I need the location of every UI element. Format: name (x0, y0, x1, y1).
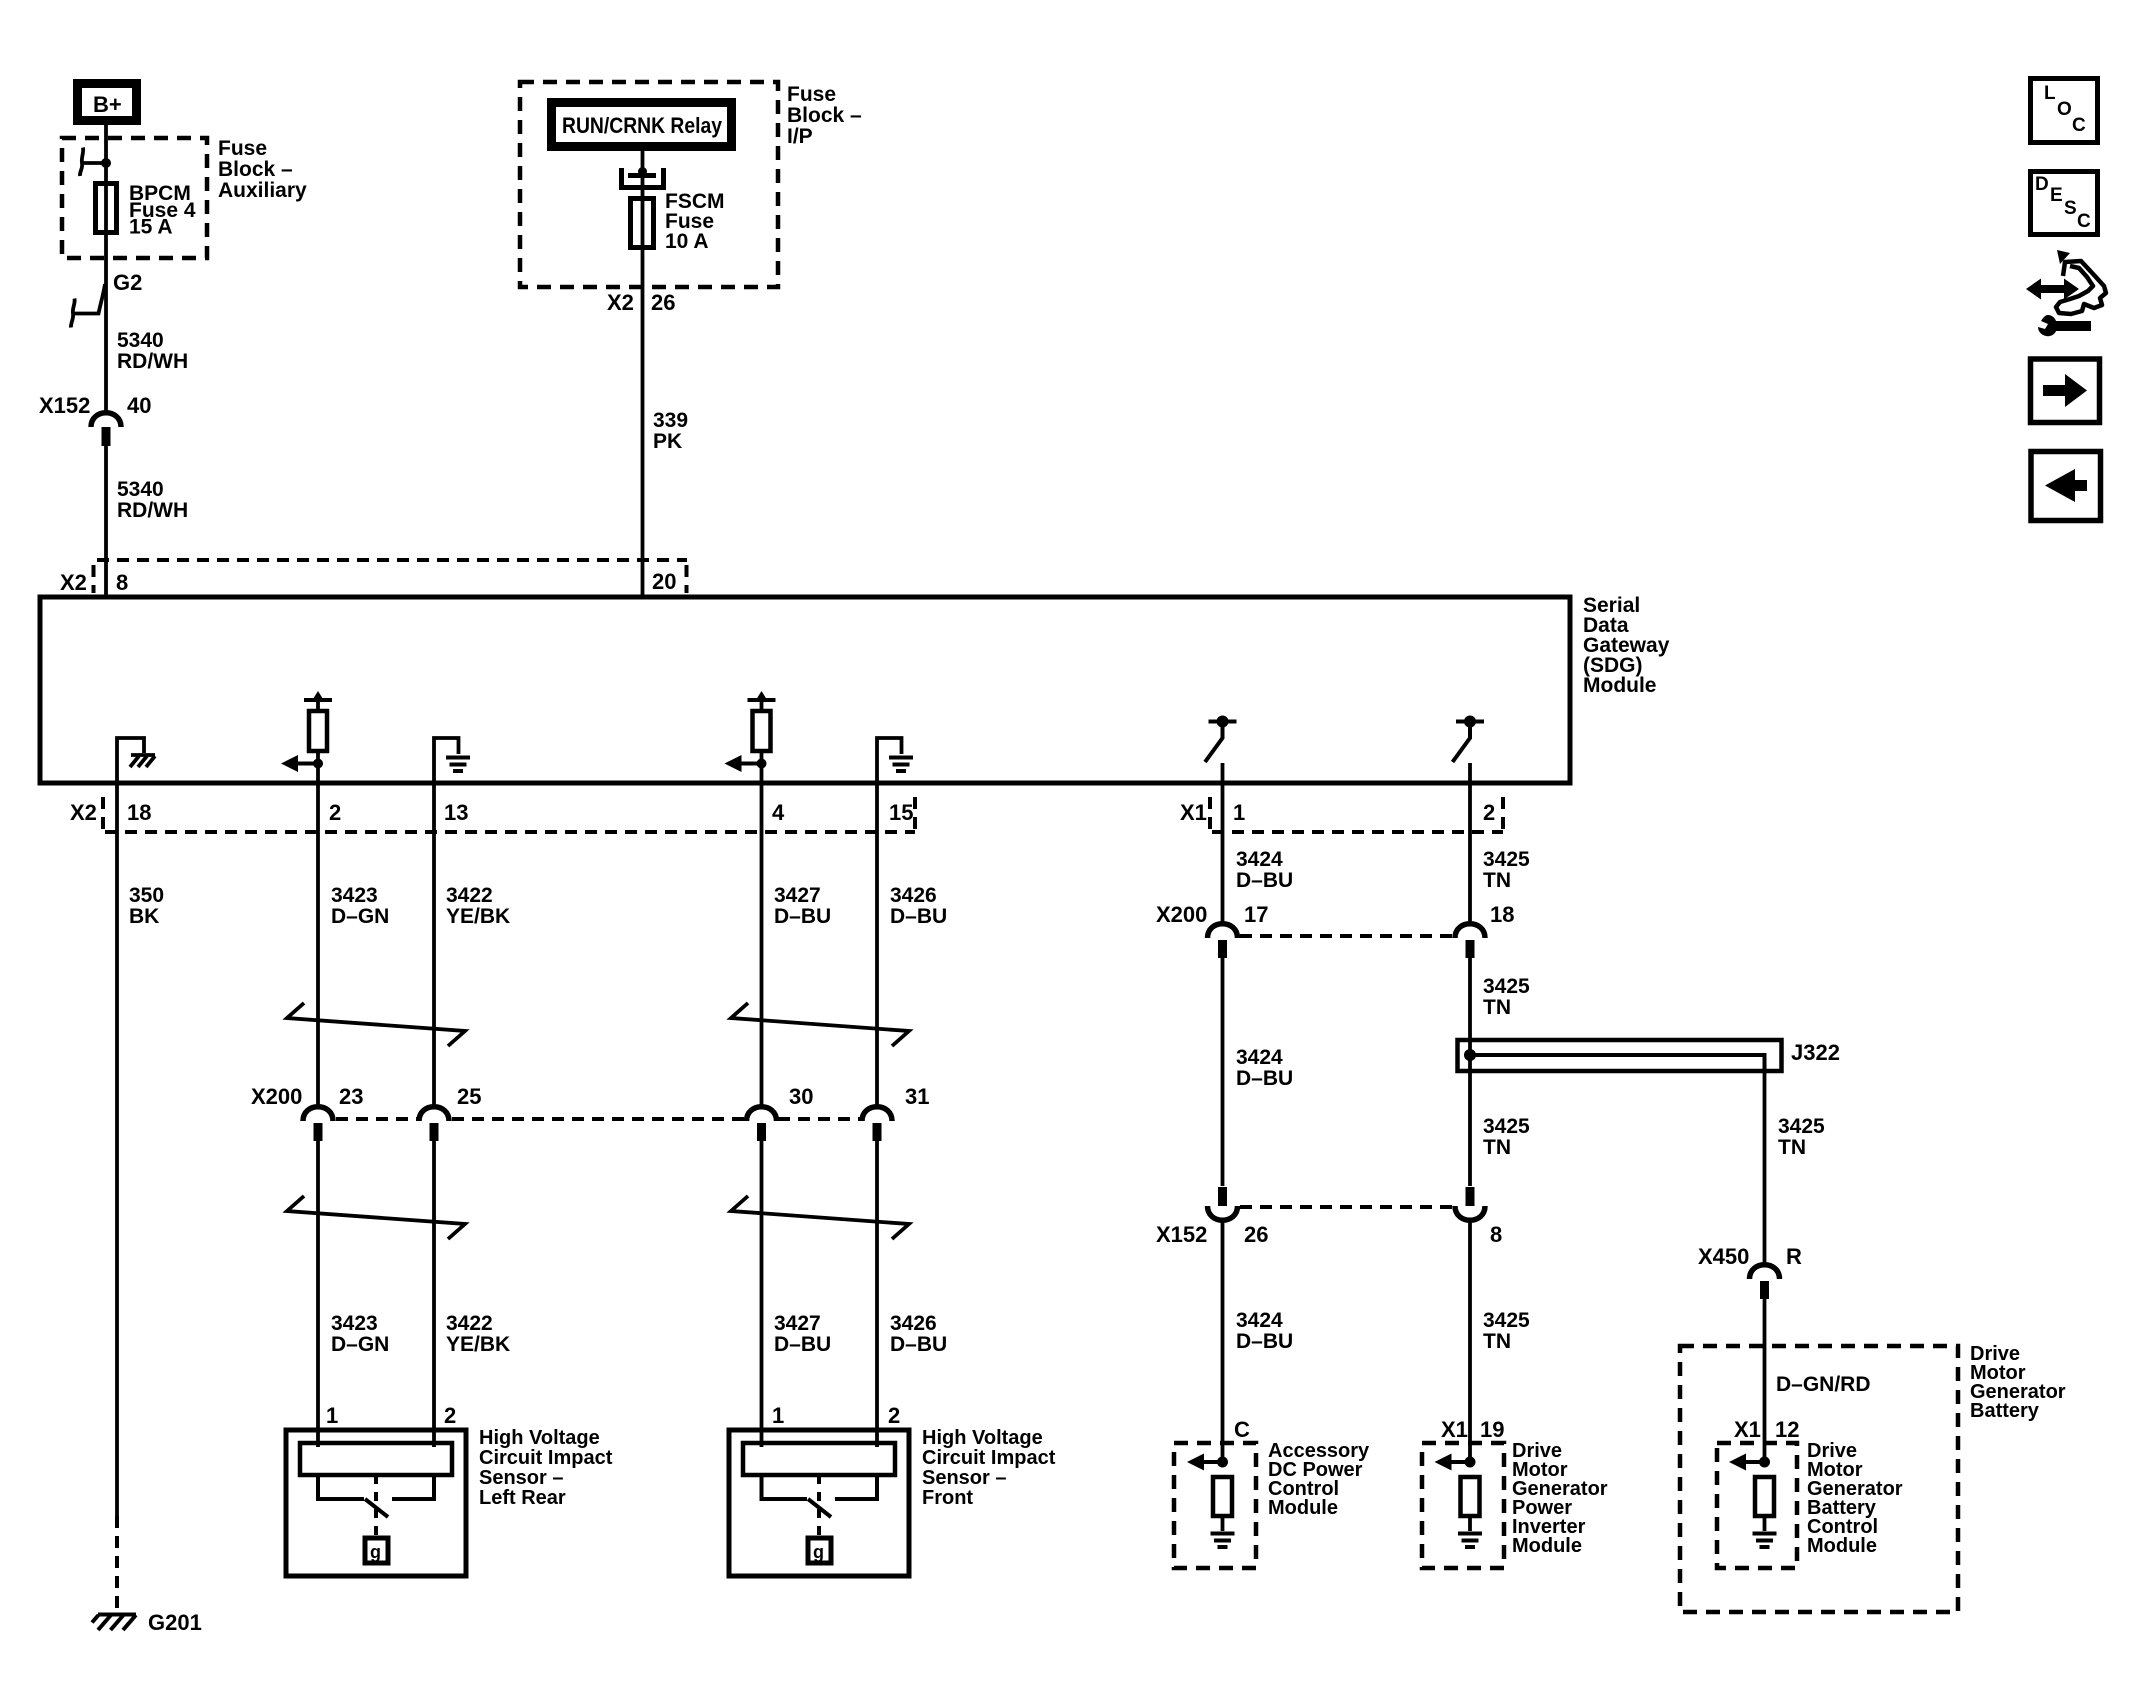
svg-text:1: 1 (326, 1403, 338, 1428)
svg-text:G2: G2 (113, 270, 142, 295)
svg-text:R: R (1786, 1244, 1802, 1269)
svg-text:19: 19 (1480, 1417, 1504, 1442)
svg-text:TN: TN (1778, 1136, 1806, 1159)
svg-text:2: 2 (888, 1403, 900, 1428)
svg-text:D–GN: D–GN (331, 1333, 389, 1356)
svg-text:Fuse: Fuse (787, 83, 836, 106)
svg-text:S: S (2064, 198, 2077, 219)
svg-text:3424: 3424 (1236, 1309, 1283, 1332)
svg-text:3425: 3425 (1483, 975, 1530, 998)
svg-text:Battery: Battery (1970, 1400, 2040, 1422)
svg-text:3425: 3425 (1483, 1115, 1530, 1138)
svg-text:26: 26 (651, 290, 675, 315)
svg-text:D–BU: D–BU (890, 905, 947, 928)
svg-text:3425: 3425 (1778, 1115, 1825, 1138)
svg-text:18: 18 (127, 800, 151, 825)
svg-text:D–GN/RD: D–GN/RD (1776, 1373, 1871, 1396)
svg-text:15 A: 15 A (129, 216, 173, 239)
svg-text:3427: 3427 (774, 884, 821, 907)
svg-text:15: 15 (889, 800, 913, 825)
svg-text:30: 30 (789, 1084, 813, 1109)
svg-text:X200: X200 (1156, 902, 1207, 927)
svg-text:3427: 3427 (774, 1312, 821, 1335)
svg-text:RD/WH: RD/WH (117, 350, 188, 373)
svg-text:Circuit Impact: Circuit Impact (922, 1447, 1056, 1469)
svg-text:D–BU: D–BU (1236, 1067, 1293, 1090)
svg-text:X2: X2 (70, 800, 97, 825)
svg-text:C: C (1234, 1417, 1250, 1442)
svg-text:25: 25 (457, 1084, 481, 1109)
svg-text:Block –: Block – (218, 158, 293, 181)
svg-text:Circuit Impact: Circuit Impact (479, 1447, 613, 1469)
svg-text:X1: X1 (1180, 800, 1207, 825)
svg-text:Front: Front (922, 1487, 973, 1509)
svg-text:5340: 5340 (117, 329, 164, 352)
svg-text:3424: 3424 (1236, 848, 1283, 871)
svg-text:40: 40 (127, 393, 151, 418)
svg-text:3425: 3425 (1483, 848, 1530, 871)
svg-text:RUN/CRNK Relay: RUN/CRNK Relay (562, 113, 723, 138)
svg-text:31: 31 (905, 1084, 929, 1109)
svg-text:339: 339 (653, 409, 688, 432)
svg-text:TN: TN (1483, 996, 1511, 1019)
svg-text:YE/BK: YE/BK (446, 1333, 510, 1356)
svg-text:G201: G201 (148, 1610, 202, 1635)
svg-text:Module: Module (1512, 1535, 1582, 1557)
svg-text:3423: 3423 (331, 1312, 378, 1335)
svg-text:C: C (2072, 115, 2086, 136)
svg-text:J322: J322 (1791, 1040, 1840, 1065)
svg-text:TN: TN (1483, 869, 1511, 892)
svg-text:Module: Module (1807, 1535, 1877, 1557)
svg-text:Sensor –: Sensor – (479, 1467, 563, 1489)
svg-text:B+: B+ (93, 92, 122, 117)
svg-text:2: 2 (444, 1403, 456, 1428)
svg-text:1: 1 (1233, 800, 1245, 825)
svg-text:TN: TN (1483, 1330, 1511, 1353)
svg-text:13: 13 (444, 800, 468, 825)
svg-text:1: 1 (772, 1403, 784, 1428)
svg-text:3426: 3426 (890, 884, 937, 907)
svg-text:X2: X2 (60, 570, 87, 595)
svg-text:Block –: Block – (787, 104, 862, 127)
svg-text:2: 2 (1483, 800, 1495, 825)
svg-text:5340: 5340 (117, 478, 164, 501)
svg-text:E: E (2050, 185, 2063, 206)
svg-text:12: 12 (1775, 1417, 1799, 1442)
svg-text:X1: X1 (1441, 1417, 1468, 1442)
svg-text:Sensor –: Sensor – (922, 1467, 1006, 1489)
svg-text:3426: 3426 (890, 1312, 937, 1335)
svg-text:17: 17 (1244, 902, 1268, 927)
svg-text:26: 26 (1244, 1222, 1268, 1247)
svg-text:High Voltage: High Voltage (479, 1427, 600, 1449)
svg-text:X2: X2 (607, 290, 634, 315)
svg-text:3422: 3422 (446, 1312, 493, 1335)
svg-text:Auxiliary: Auxiliary (218, 179, 307, 202)
svg-text:2: 2 (329, 800, 341, 825)
svg-text:Fuse: Fuse (218, 137, 267, 160)
svg-text:D–GN: D–GN (331, 905, 389, 928)
svg-text:High Voltage: High Voltage (922, 1427, 1043, 1449)
svg-text:D: D (2035, 174, 2049, 195)
svg-text:8: 8 (116, 570, 128, 595)
svg-text:L: L (2044, 83, 2056, 104)
svg-text:g: g (813, 1542, 824, 1562)
svg-text:D–BU: D–BU (1236, 869, 1293, 892)
svg-text:X1: X1 (1734, 1417, 1761, 1442)
svg-text:X200: X200 (251, 1084, 302, 1109)
svg-text:X152: X152 (39, 393, 90, 418)
svg-text:O: O (2057, 99, 2072, 120)
svg-text:D–BU: D–BU (774, 1333, 831, 1356)
svg-text:D–BU: D–BU (890, 1333, 947, 1356)
svg-text:18: 18 (1490, 902, 1514, 927)
svg-text:g: g (370, 1542, 381, 1562)
svg-text:4: 4 (772, 800, 785, 825)
svg-text:X152: X152 (1156, 1222, 1207, 1247)
svg-text:RD/WH: RD/WH (117, 499, 188, 522)
svg-text:Module: Module (1583, 674, 1657, 697)
svg-text:D–BU: D–BU (1236, 1330, 1293, 1353)
svg-text:8: 8 (1490, 1222, 1502, 1247)
svg-text:PK: PK (653, 430, 682, 453)
svg-text:350: 350 (129, 884, 164, 907)
svg-text:23: 23 (339, 1084, 363, 1109)
svg-text:3425: 3425 (1483, 1309, 1530, 1332)
svg-text:Module: Module (1268, 1497, 1338, 1519)
svg-text:TN: TN (1483, 1136, 1511, 1159)
svg-text:3424: 3424 (1236, 1046, 1283, 1069)
svg-text:3422: 3422 (446, 884, 493, 907)
svg-text:10 A: 10 A (665, 230, 709, 253)
svg-text:Left Rear: Left Rear (479, 1487, 566, 1509)
svg-text:D–BU: D–BU (774, 905, 831, 928)
svg-text:C: C (2077, 211, 2091, 232)
svg-text:I/P: I/P (787, 125, 813, 148)
svg-text:BK: BK (129, 905, 159, 928)
svg-text:20: 20 (652, 569, 676, 594)
svg-text:3423: 3423 (331, 884, 378, 907)
svg-text:YE/BK: YE/BK (446, 905, 510, 928)
svg-text:X450: X450 (1698, 1244, 1749, 1269)
